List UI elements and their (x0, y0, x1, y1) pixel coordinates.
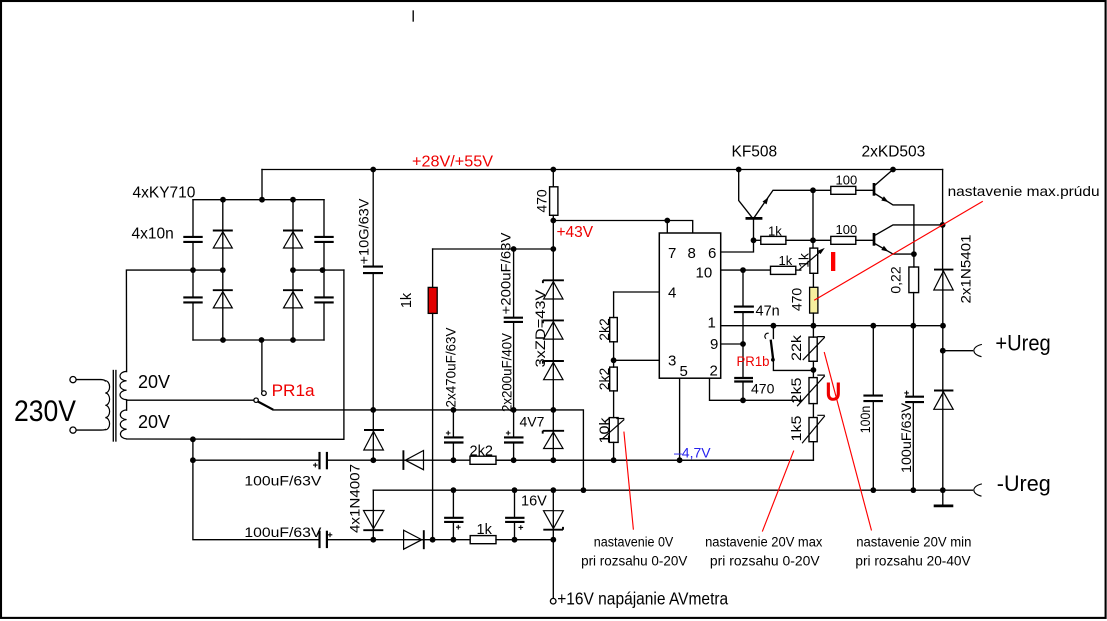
wire 4V7 to rail1 (552, 449, 554, 461)
svg-text:1k: 1k (768, 224, 782, 239)
trimmer 1k body (810, 248, 818, 273)
node pin2 wire junction (740, 397, 746, 403)
resistor 100 first (831, 186, 856, 194)
svg-text:4x1N4007: 4x1N4007 (347, 464, 363, 533)
polarity plus cap fourth (519, 525, 524, 530)
node bottom rail junction (190, 436, 196, 442)
diode 1N4007 D7 (363, 511, 384, 540)
wire pin 3 (614, 359, 660, 361)
op-amp IC U1 box (659, 233, 720, 378)
svg-text:7: 7 (668, 245, 676, 262)
wire left column down to bottom rail (193, 460, 319, 540)
capacitor 100uF/63V first (320, 452, 327, 469)
wire yellow resistor to pin1 rail (812, 313, 814, 326)
wire primary top lead (76, 380, 105, 381)
wire bridge top center riser (261, 170, 263, 200)
svg-text:U: U (826, 377, 842, 407)
svg-text:100uF/63V: 100uF/63V (244, 473, 322, 489)
polarity plus 2x200 (506, 431, 511, 436)
svg-text:pri rozsahu 0-20V: pri rozsahu 0-20V (581, 554, 687, 569)
transformer TR1 primary terminal top (70, 377, 76, 383)
svg-text:2k2: 2k2 (596, 368, 612, 391)
polarity plus cap third (456, 525, 461, 530)
svg-text:PR1a: PR1a (272, 381, 316, 400)
svg-text:2: 2 (710, 363, 718, 380)
svg-text:4: 4 (668, 285, 676, 302)
connector -Ureg fork (974, 484, 982, 496)
wire 10G cap column (372, 170, 374, 410)
svg-text:100uF/63V: 100uF/63V (244, 524, 322, 540)
wire 2k2 chain column (613, 292, 615, 460)
node Q1 base node (751, 237, 757, 243)
node Q3 collector junction (940, 222, 946, 228)
svg-text:+10G/63V: +10G/63V (356, 198, 372, 265)
svg-text:470: 470 (751, 381, 775, 397)
transistor Q3 emitter arrow (881, 246, 888, 252)
svg-text:2k2: 2k2 (596, 318, 612, 341)
capacitor +10G/63V (363, 267, 383, 274)
wire rail2 left segment (327, 539, 404, 541)
capacitor 100uF/63V right (905, 397, 924, 402)
diode KY710 D4 (283, 290, 303, 308)
svg-text:+Ureg: +Ureg (995, 331, 1050, 356)
svg-text:230V: 230V (14, 395, 76, 428)
wire 1k to node (786, 239, 831, 241)
polarity plus 100uF second (328, 533, 333, 538)
capacitor 100uF/63V second (320, 531, 327, 548)
diode 1N5401 second (934, 391, 954, 410)
diode 1N4007 D6 left-pointing (403, 450, 423, 470)
capacitor 100n (863, 396, 883, 402)
wire rail2 mid segment (424, 539, 470, 541)
transistor Q2 emitter (875, 194, 914, 255)
node 2k2 junction pin3 (611, 357, 617, 363)
wire bridge mid-right row (293, 269, 344, 271)
svg-text:100: 100 (836, 173, 858, 188)
svg-text:10: 10 (696, 265, 713, 282)
wire 470 resistor leads (552, 170, 554, 221)
resistor 1k rail2 (470, 536, 496, 544)
node 43V aux wire junction (550, 246, 556, 252)
label I red (831, 252, 835, 271)
switch PR1b lever (771, 340, 774, 360)
wire rail1 segment to 2k2 (424, 459, 471, 461)
wire pin 9 (721, 343, 743, 345)
capacitor 100uF third (444, 518, 463, 522)
transistor Q3 KD503 base bar (873, 233, 876, 246)
wire trimmer to yellow resistor (812, 273, 814, 287)
polarity plus 100uF first (313, 463, 318, 468)
node 470 bottom (550, 218, 556, 224)
wire 16V terminal drop (552, 540, 554, 599)
transformer TR1 primary terminal bottom (70, 427, 76, 433)
wire secondary top lead up to bridge mid-left (126, 270, 222, 372)
svg-text:470: 470 (534, 189, 550, 213)
capacitor 470p (734, 378, 753, 382)
resistor 1k first (761, 236, 786, 244)
wire rail1 mid segment (327, 459, 404, 461)
wire 1k second to wiper (796, 269, 801, 271)
svg-text:1k: 1k (796, 252, 812, 268)
transformer TR1 primary winding (105, 381, 109, 430)
svg-text:-Ureg: -Ureg (997, 471, 1051, 496)
svg-text:pri rozsahu 0-20V: pri rozsahu 0-20V (710, 554, 820, 569)
switch PR1a fixed contact circle (262, 391, 267, 396)
node bridge mid dots (190, 267, 325, 273)
wire 2k5 to 1k5 (812, 404, 814, 418)
polarity plus 2x470 (446, 431, 451, 436)
transistor Q1 emitter (755, 190, 814, 217)
wire 2x470uF column (452, 410, 454, 460)
wire cap fourth column (514, 490, 516, 540)
svg-text:3xZD=43V: 3xZD=43V (532, 289, 548, 368)
trimmer 1k5 body (809, 418, 817, 442)
diode 1N4007 D8 right-pointing (404, 530, 424, 549)
svg-text:2x200uF/40V: 2x200uF/40V (499, 332, 515, 412)
ground symbol (934, 490, 954, 506)
switch PR1b drop wire (772, 326, 774, 339)
zener 16V (543, 490, 563, 540)
capacitor 10n bottom-right (314, 297, 333, 302)
trimmer 2k5 wiper (797, 375, 825, 406)
svg-text:4V7: 4V7 (520, 414, 545, 430)
wire 100 first leads (813, 189, 873, 191)
svg-text:100: 100 (836, 222, 858, 237)
wire secondary mid join (126, 400, 128, 410)
wire pin 5 (679, 378, 681, 460)
svg-text:100n: 100n (857, 406, 873, 434)
wire bridge diode column 2 (292, 200, 294, 340)
svg-text:nastavenie max.prúdu: nastavenie max.prúdu (948, 183, 1100, 199)
node pin9 47n bottom (740, 341, 746, 347)
wire top rail right corner down (942, 170, 944, 270)
wire 200uF column (513, 249, 515, 460)
trimmer 22k body (809, 337, 817, 361)
node rail0 dots (370, 407, 556, 413)
transistor Q1 KF508 base bar (746, 217, 763, 220)
svg-text:KF508: KF508 (732, 144, 778, 161)
node -Ureg rail dots (451, 487, 946, 493)
svg-text:+200uF/63V: +200uF/63V (498, 232, 514, 315)
trimmer 22k wiper (803, 337, 825, 361)
wire zener column upper (552, 221, 554, 281)
node +Ureg tap (940, 348, 946, 354)
wire bridge bottom-center down to PR1a contact (261, 340, 263, 391)
wire 1k5 bottom to rail1 (496, 442, 813, 461)
resistor 1k second horizontal (771, 266, 796, 274)
wire +Ureg tap (943, 350, 973, 352)
svg-text:pri rozsahu 20-40V: pri rozsahu 20-40V (855, 554, 970, 569)
svg-text:nastavenie 0V: nastavenie 0V (594, 535, 674, 550)
wire pin 2 (710, 378, 802, 400)
trimmer 1k wiper arrow (799, 248, 824, 270)
trimmer 2k5 body (809, 378, 817, 404)
transistor Q2 collector (875, 170, 893, 186)
node pin7 stub junction (664, 218, 670, 224)
connector +Ureg fork (974, 344, 982, 356)
svg-text:+43V: +43V (557, 224, 594, 241)
svg-text:1k: 1k (477, 522, 493, 538)
zener ZD3 (543, 361, 564, 380)
transistor Q3 emitter (875, 244, 914, 255)
switch PR1a lever (258, 401, 274, 409)
wire secondary bottom rail to riser (127, 270, 344, 439)
diode KY710 D1 (213, 231, 233, 249)
svg-text:22k: 22k (788, 334, 804, 361)
switch PR1a pole circle (254, 398, 258, 402)
svg-text:PR1b: PR1b (737, 354, 770, 369)
top center tick (412, 11, 414, 21)
svg-text:4xKY710: 4xKY710 (133, 185, 196, 202)
capacitor 10n top-left (183, 237, 202, 242)
capacitor +200uF/63V (504, 318, 523, 322)
node bridge top dots (220, 197, 296, 203)
resistor 100 second (831, 236, 856, 244)
trimmer 1k5 wiper (802, 415, 825, 443)
wire red 1k leads (432, 249, 434, 540)
svg-text:nastavenie 20V max: nastavenie 20V max (705, 535, 823, 550)
svg-text:1k: 1k (399, 292, 415, 308)
wire rail1 left segment (193, 459, 319, 461)
polarity plus 100uF right (904, 391, 909, 396)
wire rail0 PR1a output (273, 410, 583, 490)
wire Q1 base lead (753, 218, 755, 240)
transistor Q1 emitter arrow (763, 197, 769, 204)
svg-text:0,22: 0,22 (888, 266, 904, 293)
svg-text:1: 1 (708, 315, 716, 332)
diode KY710 D2 (213, 290, 233, 308)
wire rail2 right segment (496, 539, 553, 541)
annotation line to 22k trimmer (824, 352, 871, 531)
trimmer 10k body (609, 418, 618, 443)
wire 22k bottom lead (812, 361, 814, 377)
svg-text:2k5: 2k5 (788, 377, 804, 403)
zener 4V7 (543, 410, 564, 449)
annotation line to 1k5 trimmer (762, 451, 794, 532)
svg-text:1k5: 1k5 (788, 415, 804, 441)
svg-text:47n: 47n (756, 304, 780, 320)
svg-text:2k2: 2k2 (470, 444, 493, 460)
node 22k 2k5 junction (811, 367, 817, 373)
wire 22k top lead (812, 326, 814, 337)
wire center tap to PR1a pole (127, 399, 254, 401)
svg-text:8: 8 (688, 245, 696, 262)
wire bridge right column (323, 200, 325, 340)
svg-text:16V: 16V (521, 494, 547, 510)
wire emitter node drop (812, 190, 814, 248)
wire bridge diode column 1 (222, 200, 224, 340)
node negative cap row (190, 457, 196, 463)
svg-text:20V: 20V (138, 372, 170, 392)
wire junction drop to negative cap row (192, 439, 194, 460)
wire 100 second lead (856, 239, 873, 241)
annotation line to 10k trimmer (624, 432, 634, 530)
svg-text:+28V/+55V: +28V/+55V (412, 154, 494, 171)
wire pin6 node to 1k (754, 239, 761, 241)
capacitor 2x200uF/40V (504, 437, 524, 442)
transistor Q3 collector (875, 225, 943, 235)
wire diode column middle (942, 290, 944, 391)
node emitter divider (810, 237, 816, 243)
node Q1 emitter right (810, 187, 816, 193)
resistor 2k2 rail1 (470, 456, 496, 464)
wire pin 6 (721, 240, 754, 252)
capacitor 47n (734, 307, 754, 313)
wire 100uF right column (912, 326, 914, 490)
transformer TR1 secondary winding 20V top (120, 371, 127, 399)
node rail1 dots (370, 457, 682, 463)
wire diode column lower (942, 409, 944, 490)
diode KY710 D3 (283, 231, 303, 249)
zener stack 3xZD=43V wire (552, 299, 554, 410)
switch PR1b fixed contact hook (765, 333, 769, 338)
wire bridge bottom rail (193, 339, 324, 341)
capacitor 2x470uF/63V (444, 437, 464, 442)
transistor Q2 emitter arrow (881, 196, 888, 202)
wire -Ureg rail (373, 489, 972, 491)
resistor 1k red (428, 287, 437, 313)
svg-text:3: 3 (668, 353, 676, 370)
wire primary bottom lead (76, 429, 105, 432)
diode 1N4007 D5 (364, 410, 384, 460)
node Q3 emitter junction (911, 251, 917, 257)
transformer TR1 core (113, 371, 116, 442)
capacitor 10n bottom-left (183, 297, 202, 302)
resistor 470 yellow (810, 287, 818, 313)
svg-text:9: 9 (710, 336, 718, 353)
svg-text:2x1N5401: 2x1N5401 (958, 234, 974, 303)
wire D7 top corner to -Ureg rail (372, 490, 374, 510)
switch PR1b lever blob (771, 358, 775, 362)
wire pin 1 rail (721, 325, 943, 327)
svg-text:4x10n: 4x10n (132, 226, 174, 243)
svg-text:470: 470 (789, 288, 805, 312)
capacitor 100uF fourth (505, 518, 524, 522)
node top rail dots (370, 167, 896, 173)
wire bridge top rail (193, 199, 324, 201)
svg-text:6: 6 (708, 245, 716, 262)
transistor Q1 collector (739, 170, 752, 217)
wire pin 4 (614, 291, 660, 293)
svg-text:2x470uF/63V: 2x470uF/63V (443, 327, 459, 408)
transistor Q2 KD503 base bar (873, 183, 876, 196)
wire +28V/+55V top rail (262, 169, 943, 171)
diode 1N5401 first (934, 270, 954, 290)
zener ZD1 (543, 280, 564, 299)
wire PR1b to divider (773, 360, 813, 370)
wire 43V aux to 1k and 200uF (433, 248, 554, 250)
terminal +16V circle (550, 598, 556, 604)
wire rail1 right segment (496, 459, 813, 461)
svg-text:10k: 10k (596, 416, 612, 443)
svg-text:20V: 20V (138, 412, 170, 432)
node bridge bottom dots (220, 337, 296, 343)
annotation line to yellow 470 (814, 201, 983, 300)
wire cap third column (452, 490, 454, 540)
transformer TR1 secondary winding 20V bottom (120, 410, 126, 439)
node rail2 dots (370, 537, 556, 543)
wire 0,22 leads (913, 254, 915, 326)
capacitor 10n top-right (314, 237, 333, 242)
resistor 2k2 second (610, 367, 618, 391)
wire 47n column (742, 270, 744, 400)
svg-text:–4,7V: –4,7V (674, 445, 711, 461)
resistor 470 top (550, 187, 558, 216)
svg-text:nastavenie 20V min: nastavenie 20V min (856, 535, 971, 550)
wire pin 10 (721, 269, 771, 271)
svg-text:1k: 1k (779, 253, 793, 268)
wire pin7 stub (666, 221, 668, 234)
svg-text:5: 5 (680, 363, 688, 380)
svg-text:2xKD503: 2xKD503 (862, 144, 926, 161)
resistor 2k2 first (610, 318, 618, 342)
wire 43V node to IC pins 7 8 (553, 221, 692, 234)
resistor 0,22 (909, 267, 919, 293)
zener ZD2 (543, 320, 564, 339)
svg-text:100uF/63V: 100uF/63V (898, 402, 914, 473)
svg-text:+16V napájanie AVmetra: +16V napájanie AVmetra (557, 589, 728, 609)
wire bridge left column (192, 200, 194, 340)
trimmer 10k wiper (602, 419, 624, 440)
node 200uF top (511, 246, 517, 252)
node pin10 47n top (740, 267, 746, 273)
node pin1 rail dots (771, 323, 946, 329)
wire 100n column (872, 326, 874, 490)
